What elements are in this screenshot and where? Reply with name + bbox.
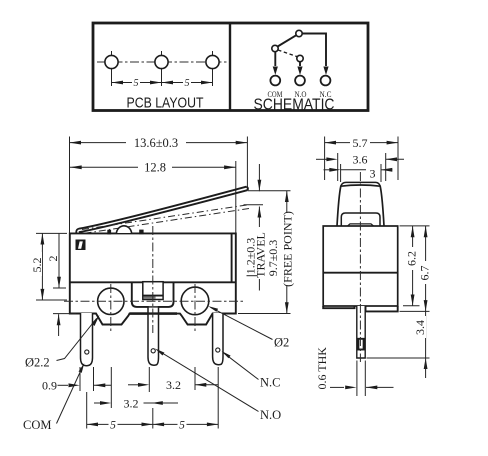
body bottom extension right (6.2) bbox=[403, 305, 420, 307]
schematic arrow to N.C terminal bbox=[323, 67, 328, 76]
dimension 13.6±0.3 bbox=[69, 136, 247, 233]
mounting boss left (Ø2.2) bbox=[98, 288, 124, 314]
PCB hole H2 vertical centerline bbox=[161, 51, 163, 86]
body outline bbox=[70, 233, 236, 324]
leader Ø2.2 bbox=[25, 315, 100, 370]
svg-text:6.2: 6.2 bbox=[405, 251, 419, 266]
schematic moving contact arm bbox=[278, 35, 297, 46]
free point reference line bbox=[248, 190, 291, 192]
svg-text:12.8: 12.8 bbox=[144, 161, 166, 175]
side foot left bbox=[323, 306, 354, 308]
lever operating position (phantom) bbox=[82, 205, 248, 230]
leader COM bbox=[23, 363, 84, 432]
svg-text:0.9: 0.9 bbox=[42, 379, 57, 393]
svg-text:5: 5 bbox=[179, 420, 185, 432]
svg-text:N.C: N.C bbox=[260, 376, 281, 390]
dimension 1.2±0.3 TRAVEL bbox=[244, 164, 268, 291]
schematic terminal COM bbox=[270, 76, 280, 86]
svg-text:3.6: 3.6 bbox=[353, 153, 368, 167]
button top cap bbox=[341, 182, 380, 186]
dimension 5 (left span) bbox=[112, 78, 162, 90]
svg-text:3: 3 bbox=[370, 167, 376, 181]
svg-text:5.2: 5.2 bbox=[30, 258, 44, 273]
svg-text:Ø2: Ø2 bbox=[274, 336, 289, 350]
svg-text:3.2: 3.2 bbox=[124, 397, 139, 411]
dimension 3.4 bbox=[413, 311, 428, 378]
dimension 0.9 bbox=[42, 367, 111, 393]
logo mark bbox=[76, 240, 86, 251]
PCB hole H2 bbox=[155, 55, 168, 68]
svg-text:Ø2.2: Ø2.2 bbox=[25, 356, 50, 370]
svg-text:13.6±0.3: 13.6±0.3 bbox=[134, 136, 178, 150]
svg-text:COM: COM bbox=[23, 418, 51, 432]
PCB hole H1 vertical centerline bbox=[111, 51, 113, 86]
bottom face over pin bbox=[130, 312, 178, 314]
PCB layout centerline horizontal bbox=[97, 61, 227, 63]
dimension 5 (left, bottom row) bbox=[87, 392, 153, 432]
svg-text:PCB LAYOUT: PCB LAYOUT bbox=[127, 95, 204, 112]
boss left vertical centerline bbox=[110, 284, 112, 331]
svg-text:3.2: 3.2 bbox=[166, 378, 181, 392]
svg-text:9.7±0.3: 9.7±0.3 bbox=[266, 240, 280, 277]
body bottom extension line right bbox=[238, 313, 291, 315]
body top extension right bbox=[400, 225, 430, 227]
schematic terminal N.C bbox=[321, 76, 331, 86]
schematic arrow common to COM terminal bbox=[274, 52, 276, 66]
schematic common node bbox=[272, 45, 278, 51]
lever free position bbox=[79, 187, 248, 233]
dimension 6.7 bbox=[418, 226, 432, 312]
dimension 3.6 bbox=[316, 153, 404, 182]
mounting boss right (Ø2) bbox=[181, 287, 209, 315]
PCB hole H3 bbox=[206, 55, 219, 68]
svg-text:5: 5 bbox=[134, 78, 139, 89]
dimension 2 bbox=[46, 233, 76, 336]
side view centerline bbox=[359, 172, 361, 362]
svg-text:6.7: 6.7 bbox=[418, 266, 432, 281]
boss centerline horizontal bbox=[64, 300, 243, 302]
dimension 5 (right span) bbox=[162, 78, 213, 90]
dimension 5.2 bbox=[30, 233, 67, 300]
dimension 9.7±0.3 (FREE POINT) bbox=[266, 191, 294, 314]
plunger dome bbox=[116, 226, 131, 233]
center terminal housing bbox=[143, 282, 163, 300]
button stem bbox=[348, 224, 374, 226]
svg-text:SCHEMATIC: SCHEMATIC bbox=[254, 96, 335, 113]
schematic pivot node bbox=[296, 30, 302, 36]
button collar bbox=[341, 213, 380, 226]
svg-text:N.O: N.O bbox=[260, 408, 281, 422]
panel divider bbox=[229, 23, 231, 110]
dimension 0.6 THK bbox=[315, 347, 394, 396]
schematic N.O node bbox=[297, 55, 303, 61]
svg-text:5.7: 5.7 bbox=[353, 136, 368, 150]
dimension 3 bbox=[324, 164, 393, 182]
boss right vertical centerline bbox=[194, 284, 196, 331]
side pin bbox=[357, 306, 365, 358]
dimension 3.2 (lower) bbox=[94, 367, 178, 411]
terminal pin N.O (middle) bbox=[148, 306, 159, 365]
leader N.C bbox=[222, 351, 281, 390]
svg-text:5: 5 bbox=[185, 78, 190, 89]
svg-text:2: 2 bbox=[46, 256, 60, 262]
terminal slot line right bbox=[231, 234, 233, 282]
PCB hole H1 bbox=[105, 55, 118, 68]
cover tab left bbox=[107, 230, 111, 235]
center recess bbox=[132, 283, 174, 307]
svg-text:0.6 THK: 0.6 THK bbox=[315, 347, 329, 390]
panel frame bbox=[93, 23, 368, 111]
feet bottom extension right (6.7 / 3.4) bbox=[400, 310, 430, 312]
body parting line bbox=[70, 281, 236, 283]
svg-text:5: 5 bbox=[110, 420, 116, 432]
front view vertical centerline bbox=[152, 226, 154, 333]
schematic dashed link common to N.O bbox=[278, 50, 297, 57]
button (plunger) bbox=[337, 185, 384, 226]
schematic wire pivot to N.C bbox=[302, 34, 326, 67]
leader N.O bbox=[155, 349, 281, 423]
schematic arrow N.O node to N.O terminal bbox=[299, 62, 301, 66]
dimension 3.2 (upper) bbox=[128, 367, 218, 392]
schematic terminal N.O bbox=[295, 76, 305, 86]
terminal pin N.C (right) bbox=[213, 313, 223, 365]
side foot right bbox=[366, 306, 398, 311]
svg-text:(FREE POINT): (FREE POINT) bbox=[280, 211, 294, 287]
terminal pin COM (left) bbox=[81, 313, 93, 366]
dimension 5.7 bbox=[325, 136, 398, 180]
dimension 5 (right, bottom row) bbox=[153, 367, 218, 432]
bottom face between notches bbox=[130, 312, 178, 314]
recess bottom over pin bbox=[147, 306, 160, 308]
dimension 6.2 bbox=[405, 226, 419, 306]
pin tip extension right bbox=[367, 357, 430, 359]
dimension 12.8 bbox=[70, 161, 236, 234]
cover tab right bbox=[139, 230, 143, 235]
leader Ø2 bbox=[208, 306, 289, 349]
PCB hole H3 vertical centerline bbox=[212, 51, 214, 86]
operating point reference line bbox=[244, 204, 264, 206]
svg-text:3.4: 3.4 bbox=[413, 320, 427, 335]
lever hinge curl bbox=[76, 229, 80, 234]
side body bbox=[323, 226, 398, 306]
side body parting line bbox=[323, 272, 398, 274]
